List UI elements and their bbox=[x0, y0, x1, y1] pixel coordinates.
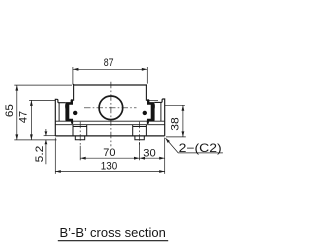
hole: large center circle bbox=[99, 96, 123, 120]
wire: left inner pocket wall bbox=[58, 103, 60, 122]
wire: left flange outer wall and shoulder step bbox=[55, 99, 66, 136]
centerline: right foot axis bbox=[139, 122, 141, 146]
left clip screw hole bbox=[73, 111, 77, 115]
leader note 2-(C2) bbox=[166, 138, 223, 153]
svg-text:47: 47 bbox=[18, 111, 30, 123]
wire: body bottom edge bbox=[55, 135, 164, 137]
wire: right clip ledge line bbox=[147, 100, 158, 102]
left bottom boss bbox=[75, 136, 84, 140]
right foot block bbox=[133, 125, 147, 136]
left foot block bbox=[73, 125, 87, 136]
svg-text:65: 65 bbox=[4, 104, 16, 117]
title underline bbox=[58, 240, 168, 242]
centerline: vertical main axis bbox=[110, 82, 112, 147]
dimension 87 top bbox=[73, 67, 147, 84]
wire: base plate top line bbox=[55, 124, 164, 126]
dimension 70 bottom bbox=[80, 142, 139, 160]
wire: right flange outer wall and shoulder step bbox=[154, 99, 165, 136]
centerline: horizontal circle axis bbox=[84, 107, 137, 109]
svg-text:130: 130 bbox=[101, 161, 117, 173]
svg-text:B’-B’ cross section: B’-B’ cross section bbox=[60, 226, 166, 240]
right spring clip bbox=[147, 99, 155, 124]
svg-text:70: 70 bbox=[103, 147, 115, 159]
wire: lid right side bbox=[145, 85, 147, 101]
dimension 130 bottom bbox=[55, 138, 164, 174]
svg-text:2−(C2): 2−(C2) bbox=[179, 142, 222, 155]
centerline: left foot axis bbox=[79, 122, 81, 146]
wire: lid left side bbox=[73, 85, 75, 101]
dimension 65 left bbox=[14, 85, 72, 140]
dimension 30 bottom bbox=[140, 157, 165, 159]
dimension 47 left bbox=[29, 100, 55, 139]
svg-text:87: 87 bbox=[104, 57, 114, 69]
right bottom boss bbox=[135, 136, 144, 140]
wire: right inner pocket wall bbox=[160, 102, 162, 121]
svg-text:38: 38 bbox=[169, 117, 181, 130]
svg-text:5.2: 5.2 bbox=[34, 146, 46, 163]
wire: body lid top edge bbox=[73, 84, 147, 85]
dimension 5.2 left bottom bbox=[44, 129, 57, 164]
svg-text:30: 30 bbox=[143, 148, 155, 160]
left spring clip bbox=[65, 99, 73, 124]
wire: internal partition line bbox=[55, 120, 164, 122]
dimension 38 right bbox=[165, 105, 186, 137]
right clip screw hole bbox=[143, 111, 147, 115]
